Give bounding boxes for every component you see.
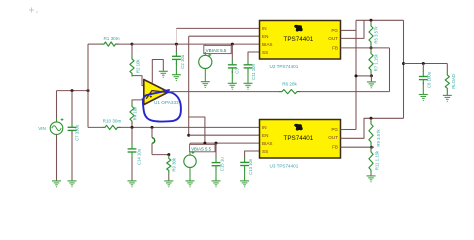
label R6 20k <box>282 81 297 86</box>
wire C11 bottom stem <box>247 71 249 83</box>
label R10 30m <box>103 118 122 123</box>
node dot bias2 branch <box>203 142 206 145</box>
svg-text:TPS74401: TPS74401 <box>284 135 314 142</box>
svg-text:C15 1u: C15 1u <box>219 157 224 171</box>
resistor R9 30k <box>167 155 171 174</box>
label C3 <box>234 68 239 74</box>
wire rail to R10 <box>88 126 105 128</box>
node dot C15 top <box>215 142 218 145</box>
svg-text:SS: SS <box>262 149 268 154</box>
svg-text:OUT: OUT <box>328 36 338 41</box>
pin label U3 PG <box>331 127 338 132</box>
svg-text:BIAS: BIAS <box>262 141 272 146</box>
resistor R10 30m <box>102 125 121 129</box>
ground C6 <box>419 95 428 101</box>
ground C14 <box>128 181 137 187</box>
node dot R10 R4 C14 node <box>131 126 134 129</box>
svg-text:U2 TPS74401: U2 TPS74401 <box>270 64 299 69</box>
ground C7 <box>68 181 77 187</box>
node dot probe branch <box>151 126 154 129</box>
svg-text:PG: PG <box>331 127 338 132</box>
label RLOAD <box>451 74 456 89</box>
wire RLOAD bottom lead <box>446 92 448 96</box>
wire VBIAS1 bottom stem <box>204 69 206 82</box>
svg-text:IN: IN <box>262 125 267 130</box>
wire IN1 riser faint <box>175 28 177 43</box>
capacitor C15 1u <box>212 158 221 171</box>
label R1 30m <box>103 36 119 41</box>
wire C15 bottom stem <box>215 169 217 181</box>
wire probe branch lower <box>152 143 169 154</box>
wire R9 bottom lead <box>168 174 170 181</box>
wire VIN stem and input rail <box>57 91 89 122</box>
resistor R9 3.57k <box>369 118 373 145</box>
voltage source VBIAS2 5.5 <box>184 151 196 167</box>
capacitor C13 10n <box>240 157 249 170</box>
label R9 30k <box>171 157 176 171</box>
wire U2 IN <box>176 27 259 29</box>
wire U3 SS to C13 <box>245 151 260 158</box>
pin label U3 OUT <box>328 135 338 140</box>
wire R1 to node <box>116 43 133 45</box>
resistor R5 3.57k <box>369 20 373 45</box>
regulator U2 TPS74401 box <box>260 21 341 60</box>
wire VIN bottom stem <box>56 135 58 181</box>
wire U2 FB <box>341 47 390 49</box>
label VIN <box>38 126 46 131</box>
svg-text:C7 330u: C7 330u <box>75 124 80 141</box>
svg-text:R7 1.15k: R7 1.15k <box>373 53 378 71</box>
label U1 OPA333 <box>154 100 179 105</box>
resistor R6 20k <box>279 90 300 94</box>
wire U3 PG <box>341 129 357 131</box>
ground C2 <box>172 75 181 81</box>
svg-text:R6 20k: R6 20k <box>282 81 297 86</box>
pin label U2 EN <box>262 34 268 39</box>
wire C14 bottom stem <box>131 157 133 181</box>
label R11 1.15k <box>375 150 380 170</box>
wire C2 stem <box>175 44 177 52</box>
capacitor C14 10u <box>128 144 137 157</box>
wire U2 EN <box>189 35 260 37</box>
label C13 10n <box>248 158 253 175</box>
ground VIN <box>52 181 61 187</box>
svg-text:IN: IN <box>262 26 267 31</box>
wire U2 OUT riser <box>341 20 365 38</box>
wire R5 bottom lead <box>370 45 372 48</box>
ground R11 <box>367 176 376 182</box>
ground C3 <box>228 83 237 89</box>
wire U3 OUT riser <box>341 118 404 138</box>
resistor R4 10k <box>130 103 134 124</box>
wire R2 top lead <box>131 44 133 56</box>
pin label U3 IN <box>262 125 267 130</box>
svg-text:RLOAD: RLOAD <box>451 74 456 89</box>
wire C3 stem <box>231 44 233 60</box>
label R9 3.57k <box>376 129 381 147</box>
ground R9 <box>164 181 173 187</box>
node dot C7 top <box>71 89 74 92</box>
pin label U2 SS <box>262 50 268 55</box>
label R2 10k <box>135 59 140 73</box>
wire U3 FB <box>341 146 375 148</box>
label C2 10u <box>180 54 185 68</box>
wire U2 PG <box>341 29 357 31</box>
regulator U3 TPS74401 box <box>260 120 341 159</box>
svg-text:TPS74401: TPS74401 <box>284 36 314 43</box>
svg-text:R1 30m: R1 30m <box>103 36 119 41</box>
wire main rail to U3 IN <box>118 126 260 128</box>
node dot C3 top <box>231 43 234 46</box>
voltage source VIN <box>50 118 63 138</box>
wire R7 bottom lead <box>370 73 372 76</box>
annotation blue loop <box>143 90 181 122</box>
svg-text:VBIAS 5.5: VBIAS 5.5 <box>206 48 227 53</box>
node dot EN2 junction <box>187 134 190 137</box>
wire op-amp top to ground bracket <box>152 60 163 83</box>
label C14 10u <box>136 148 141 165</box>
label R7 1.15k <box>373 53 378 71</box>
svg-text:R2 10k: R2 10k <box>135 59 140 73</box>
node dot R7 ground tie <box>370 74 373 77</box>
label R4 10k <box>133 106 138 120</box>
svg-text:C3: C3 <box>234 68 239 74</box>
wire ground tie <box>356 75 371 77</box>
svg-text:VIN: VIN <box>38 126 46 131</box>
resistor R7 1.15k <box>369 48 373 73</box>
pin label U3 SS <box>262 149 268 154</box>
node dot FB2 junction <box>370 146 373 149</box>
ground C15 <box>212 181 221 187</box>
pin label U2 PG <box>331 28 338 33</box>
label U3 TPS74401 <box>270 163 299 168</box>
voltage source VBIAS1 5.5 <box>199 52 212 69</box>
wire R9b bottom lead <box>370 145 372 147</box>
wire PG PG vertical <box>355 20 357 129</box>
svg-text:R4 10k: R4 10k <box>133 106 138 120</box>
svg-text:C14 10u: C14 10u <box>136 148 141 165</box>
svg-text:U1 OPA333: U1 OPA333 <box>154 100 179 105</box>
svg-text:OUT: OUT <box>328 135 338 140</box>
node dot C2 top <box>175 43 178 46</box>
wire C13 bottom stem <box>244 169 246 181</box>
svg-text:U3 TPS74401: U3 TPS74401 <box>270 163 299 168</box>
pin label U3 FB <box>332 145 338 150</box>
node dot VIN rail R1 riser <box>87 89 90 92</box>
node dot R1 R2 junction <box>131 43 134 46</box>
wire probe branch upper <box>151 127 153 137</box>
wire EN vertical <box>188 36 190 135</box>
resistor R11 1.15k <box>369 147 373 173</box>
wire bias rail y44 <box>132 43 260 45</box>
wire R1 left lead <box>88 43 104 45</box>
svg-text:C2 10u: C2 10u <box>180 54 185 68</box>
pin label U3 EN <box>262 133 268 138</box>
wire C15 stem <box>215 143 217 158</box>
svg-text:C6 100u: C6 100u <box>426 71 431 88</box>
label C15 1u <box>219 157 224 171</box>
wire R2 to op-amp inverting input <box>132 76 144 86</box>
svg-text:R9 30k: R9 30k <box>171 157 176 171</box>
wire RLOAD top lead <box>446 64 448 73</box>
decorative cursor mark <box>29 8 38 13</box>
capacitor C6 100u <box>419 72 428 85</box>
wire out down right <box>403 20 405 118</box>
svg-text:R10 30m: R10 30m <box>103 118 122 123</box>
node dot FB1 junction <box>370 46 373 49</box>
wire op-amp output <box>169 91 282 93</box>
wire C3 bottom stem <box>231 71 233 83</box>
op-amp U1 triangle <box>144 80 169 105</box>
node dot ground tie on vertical <box>355 74 358 77</box>
node dot C6 top <box>422 62 425 65</box>
wire C6 bottom stem <box>422 83 424 95</box>
svg-text:FB: FB <box>332 145 338 150</box>
capacitor C3 <box>228 60 237 73</box>
ground op-amp bracket <box>159 71 168 77</box>
svg-text:R5 3.57k: R5 3.57k <box>373 26 378 44</box>
wire top out rail <box>356 19 404 21</box>
ground R7 <box>367 82 376 88</box>
pin label U3 BIAS <box>262 141 272 146</box>
wire R4 bottom lead <box>131 122 133 127</box>
wire U3 EN <box>189 134 260 136</box>
wire C2 bottom stem <box>175 63 177 75</box>
svg-text:EN: EN <box>262 34 268 39</box>
node dot R5 top <box>370 19 373 22</box>
ground C11 <box>244 83 253 89</box>
pin label U2 BIAS <box>262 42 272 47</box>
wire VBIAS1 stem <box>204 44 206 52</box>
wire R1 riser vertical <box>87 44 89 127</box>
wire load rail <box>404 63 448 65</box>
wire C7 bottom stem <box>71 130 73 181</box>
wire op-amp noninverting input to R4 <box>132 99 144 104</box>
svg-text:C11 10n: C11 10n <box>251 63 256 80</box>
wire C7 top stem <box>71 91 73 128</box>
label C6 100u <box>426 71 431 88</box>
label R5 3.57k <box>373 26 378 44</box>
label box VBIAS 5.5 lower <box>190 144 215 151</box>
svg-text:BIAS: BIAS <box>262 42 272 47</box>
wire R7 ground stem <box>370 76 372 82</box>
capacitor C2 10u <box>172 51 181 64</box>
pin label U2 FB <box>332 46 338 51</box>
svg-text:SS: SS <box>262 50 268 55</box>
pin label U2 IN <box>262 26 267 31</box>
resistor R1 30m <box>101 42 119 46</box>
wire VBIAS2 bottom stem <box>189 168 191 181</box>
wire U2 SS to C11 <box>248 52 260 60</box>
ground RLOAD <box>443 95 452 101</box>
wire C6 stem <box>422 64 424 73</box>
capacitor C11 10n <box>244 60 253 73</box>
node dot load rail <box>402 62 405 65</box>
label box VBIAS 5.5 upper <box>204 45 231 53</box>
wire R6 to FB riser <box>297 91 390 93</box>
capacitor C7 330u <box>68 122 77 135</box>
wire bias2 rail <box>190 142 260 144</box>
resistor R2 10k <box>130 56 134 77</box>
resistor RLOAD <box>445 72 449 92</box>
wire EN branch to bias2 rail <box>189 117 205 143</box>
node dot R9 top <box>167 153 170 156</box>
wire VBIAS2 stem <box>189 143 191 152</box>
ground VBIAS1 <box>201 82 210 88</box>
wire FB riser <box>389 48 391 92</box>
svg-text:R11 1.15k: R11 1.15k <box>375 150 380 170</box>
ground C13 <box>240 181 249 187</box>
svg-text:EN: EN <box>262 133 268 138</box>
wire C14 stem <box>131 127 133 144</box>
svg-text:VBIAS 5.5: VBIAS 5.5 <box>191 146 211 151</box>
current probe marker <box>152 138 155 143</box>
label U2 TPS74401 <box>270 64 299 69</box>
ground VBIAS2 <box>186 181 195 187</box>
label C11 10n <box>251 63 256 80</box>
label C7 330u <box>75 124 80 141</box>
svg-text:FB: FB <box>332 46 338 51</box>
svg-text:R9 3.57k: R9 3.57k <box>376 129 381 147</box>
svg-text:PG: PG <box>331 28 338 33</box>
pin label U2 OUT <box>328 36 338 41</box>
wire R11 bottom lead <box>370 173 372 176</box>
svg-text:C13 10n: C13 10n <box>248 158 253 175</box>
node dot R9b top <box>370 117 373 120</box>
